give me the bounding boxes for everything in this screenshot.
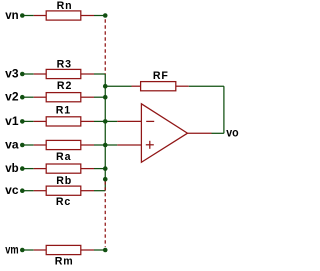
svg-text:Ra: Ra (56, 151, 71, 163)
svg-text:R3: R3 (57, 58, 72, 70)
svg-text:vm: vm (5, 242, 18, 256)
svg-text:R2: R2 (57, 80, 72, 92)
svg-text:vb: vb (5, 161, 18, 175)
svg-text:vo: vo (226, 125, 238, 139)
svg-text:Rm: Rm (55, 255, 74, 266)
svg-text:vn: vn (5, 8, 18, 22)
svg-text:Rb: Rb (56, 175, 72, 187)
svg-text:R1: R1 (56, 104, 71, 116)
svg-text:v1: v1 (5, 114, 19, 128)
svg-text:vc: vc (5, 183, 19, 197)
svg-text:Rn: Rn (57, 0, 73, 12)
svg-text:RF: RF (153, 70, 169, 82)
svg-text:Rc: Rc (56, 196, 71, 208)
svg-text:v3: v3 (5, 66, 19, 80)
svg-text:va: va (5, 137, 19, 151)
svg-text:v2: v2 (5, 90, 19, 104)
